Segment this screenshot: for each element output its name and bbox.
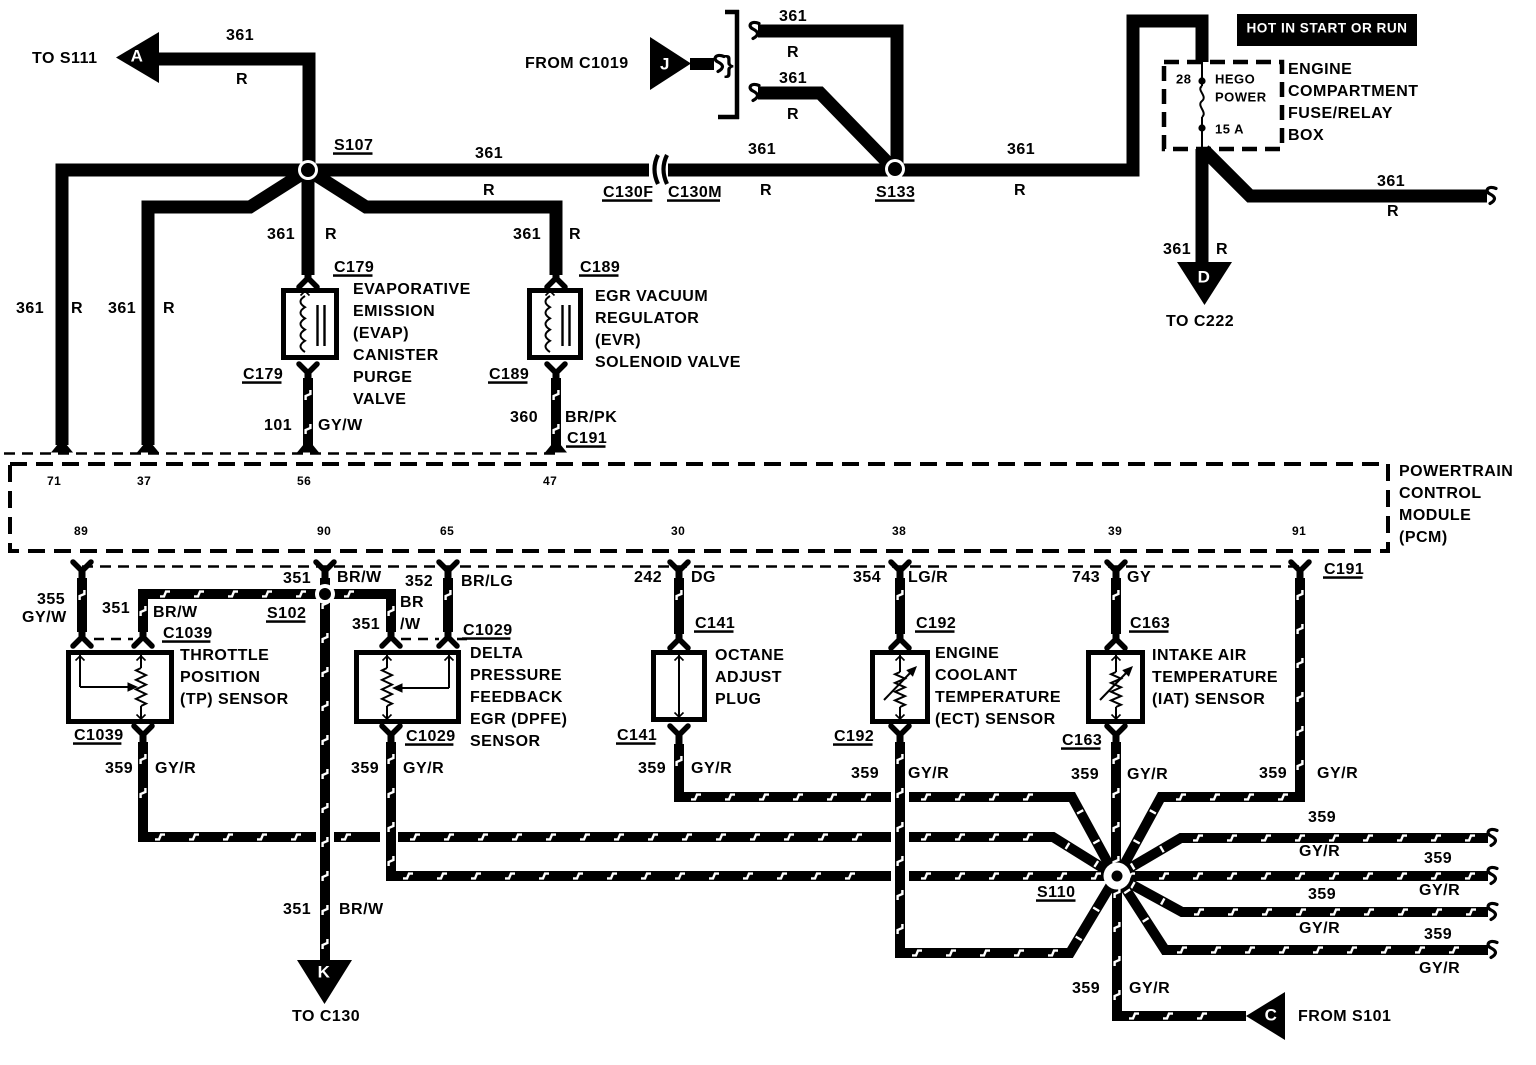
svg-text:359: 359 (1308, 809, 1336, 826)
svg-text:(PCM): (PCM) (1399, 529, 1448, 546)
arrow C from S101 (1246, 992, 1391, 1040)
svg-text:BR/LG: BR/LG (461, 573, 513, 590)
wire 361 R from A to S107 (159, 27, 309, 170)
svg-text:}: } (724, 51, 734, 79)
PCM pin 90 (316, 524, 334, 580)
engine coolant temperature ECT sensor (873, 645, 1062, 728)
octane adjust plug (654, 647, 785, 720)
wire 359 GY/R S110 to right edge 2 (1118, 877, 1497, 937)
svg-text:K: K (318, 963, 331, 982)
svg-text:THROTTLE: THROTTLE (180, 647, 269, 664)
svg-text:C189: C189 (489, 366, 529, 383)
connector C189 top (547, 259, 620, 287)
wire 359 GY/R ECT sensor to S110 (851, 742, 1115, 955)
svg-text:359: 359 (1424, 850, 1452, 867)
PCM pin 37 (137, 444, 159, 488)
svg-text:GY/R: GY/R (1317, 765, 1358, 782)
wire 355 GY/W PCM pin 89 to TP sensor (22, 578, 91, 646)
svg-text:C1029: C1029 (463, 622, 513, 639)
svg-text:89: 89 (74, 524, 88, 538)
svg-text:R: R (760, 182, 772, 199)
PCM pin 71 (47, 444, 73, 488)
svg-text:A: A (131, 47, 144, 66)
wire 360 BR/PK EVR to PCM pin 47 via C191 (510, 378, 617, 453)
wire 351 BR/W S102 to DPFE sensor (332, 592, 424, 646)
svg-text:352: 352 (405, 573, 433, 590)
svg-text:C1039: C1039 (163, 625, 213, 642)
svg-text:C1029: C1029 (406, 728, 456, 745)
svg-text:361: 361 (1007, 141, 1035, 158)
wire 101 GY/W EVAP to PCM pin 71 (264, 378, 363, 453)
connector C189 bottom (488, 364, 565, 384)
PCM pin 30 (670, 524, 688, 580)
svg-text:(TP) SENSOR: (TP) SENSOR (180, 691, 289, 708)
wire 361 R S133 to fuse box (900, 21, 1202, 199)
arrow A to S111 (32, 32, 159, 83)
svg-text:361: 361 (748, 141, 776, 158)
svg-text:R: R (569, 226, 581, 243)
svg-text:47: 47 (543, 474, 557, 488)
wire 354 LG/R PCM pin 38 to ECT (853, 569, 956, 648)
svg-text:GY/R: GY/R (1127, 766, 1168, 783)
splice S102 (266, 584, 335, 623)
svg-text:C189: C189 (580, 259, 620, 276)
PCM pin 38 (891, 524, 909, 580)
svg-text:POSITION: POSITION (180, 669, 260, 686)
fuse HEGO POWER 15 A pin 28 (1176, 62, 1267, 149)
svg-text:CANISTER: CANISTER (353, 347, 439, 364)
wire 242 DG PCM pin 30 to octane plug (634, 569, 735, 648)
svg-text:DG: DG (691, 569, 716, 586)
svg-text:EMISSION: EMISSION (353, 303, 435, 320)
svg-text:C192: C192 (834, 728, 874, 745)
connector dash line C1039 (94, 638, 133, 641)
svg-text:CONTROL: CONTROL (1399, 485, 1482, 502)
svg-text:351: 351 (283, 901, 311, 918)
svg-text:56: 56 (297, 474, 311, 488)
svg-text:J: J (660, 55, 670, 74)
arrow J from C1019 (525, 37, 734, 90)
svg-text:BOX: BOX (1288, 127, 1324, 144)
svg-text:INTAKE AIR: INTAKE AIR (1152, 647, 1247, 664)
svg-text:C141: C141 (695, 615, 735, 632)
svg-text:C: C (1265, 1006, 1278, 1025)
svg-text:D: D (1198, 268, 1211, 287)
PCM pin 47 (543, 474, 557, 488)
svg-text:351: 351 (283, 570, 311, 587)
svg-text:360: 360 (510, 409, 538, 426)
inline connector C130F C130M (602, 155, 722, 202)
svg-text:(EVR): (EVR) (595, 332, 641, 349)
PCM pin 91 (1291, 524, 1309, 580)
svg-text:90: 90 (317, 524, 331, 538)
svg-text:GY/R: GY/R (1419, 960, 1460, 977)
EGR vacuum regulator solenoid valve (530, 288, 741, 371)
power label HOT IN START OR RUN (1237, 14, 1417, 46)
wire 361 R S107 to PCM pin 37 (108, 172, 305, 445)
splice S133 (875, 159, 915, 202)
svg-text:351: 351 (102, 600, 130, 617)
svg-text:C141: C141 (617, 727, 657, 744)
svg-text:359: 359 (1259, 765, 1287, 782)
svg-text:C163: C163 (1130, 615, 1170, 632)
svg-text:R: R (325, 226, 337, 243)
svg-text:TEMPERATURE: TEMPERATURE (935, 689, 1061, 706)
svg-text:MODULE: MODULE (1399, 507, 1471, 524)
svg-text:R: R (1216, 241, 1228, 258)
svg-text:/W: /W (400, 616, 421, 633)
svg-text:HEGO: HEGO (1215, 72, 1255, 87)
svg-text:POWERTRAIN: POWERTRAIN (1399, 463, 1513, 480)
wire 359 GY/R TP sensor to S110 (105, 742, 1114, 875)
svg-text:359: 359 (851, 765, 879, 782)
wire 351 BR/W PCM pin 90 to S102 and K (283, 569, 384, 960)
svg-text:VALVE: VALVE (353, 391, 406, 408)
engine compartment fuse/relay box (1164, 61, 1419, 149)
connector dash line C1029 (401, 638, 470, 641)
throttle position TP sensor (69, 647, 289, 722)
svg-text:(ECT) SENSOR: (ECT) SENSOR (935, 711, 1056, 728)
svg-text:R: R (71, 300, 83, 317)
EVAP canister purge valve (284, 281, 471, 408)
svg-text:SOLENOID VALVE: SOLENOID VALVE (595, 354, 741, 371)
svg-text:361: 361 (475, 145, 503, 162)
connector C192 bottom (833, 726, 909, 746)
svg-text:(IAT) SENSOR: (IAT) SENSOR (1152, 691, 1265, 708)
svg-text:ENGINE: ENGINE (1288, 61, 1352, 78)
svg-text:DELTA: DELTA (470, 645, 523, 662)
svg-text:GY: GY (1127, 569, 1151, 586)
wire 359 GY/R PCM pin 91 C191 to S110 (1119, 561, 1364, 874)
wire 359 GY/R octane plug to S110 (638, 744, 1114, 874)
svg-text:361: 361 (779, 70, 807, 87)
svg-text:EGR VACUUM: EGR VACUUM (595, 288, 708, 305)
svg-text:361: 361 (513, 226, 541, 243)
powertrain control module PCM box (10, 463, 1513, 551)
svg-text:GY/R: GY/R (403, 760, 444, 777)
svg-text:EVAPORATIVE: EVAPORATIVE (353, 281, 471, 298)
svg-text:POWER: POWER (1215, 90, 1267, 105)
svg-text:GY/R: GY/R (1419, 882, 1460, 899)
PCM pin 39 (1107, 524, 1125, 580)
PCM pin 89 (73, 524, 91, 580)
splice S107 (298, 137, 373, 180)
delta pressure feedback EGR DPFE sensor (357, 645, 568, 750)
svg-text:BR/W: BR/W (153, 604, 198, 621)
svg-text:359: 359 (1308, 886, 1336, 903)
svg-text:359: 359 (105, 760, 133, 777)
arrow K to C130 (292, 960, 360, 1025)
svg-text:BR/W: BR/W (339, 901, 384, 918)
wire 361 R fuse to D (1163, 149, 1228, 265)
svg-text:359: 359 (1424, 926, 1452, 943)
svg-text:R: R (483, 182, 495, 199)
svg-text:LG/R: LG/R (908, 569, 948, 586)
svg-text:GY/R: GY/R (1129, 980, 1170, 997)
wire 359 GY/R IAT sensor to S110 (1071, 742, 1168, 876)
svg-text:91: 91 (1292, 524, 1306, 538)
wire 359 GY/R S110 to C (1072, 876, 1246, 1018)
wire 361 R fuse to right edge (1204, 150, 1496, 220)
svg-text:C1039: C1039 (74, 727, 124, 744)
svg-text:HOT IN START OR RUN: HOT IN START OR RUN (1246, 21, 1407, 36)
svg-text:C179: C179 (334, 259, 374, 276)
svg-text:(EVAP): (EVAP) (353, 325, 409, 342)
svg-text:355: 355 (37, 591, 65, 608)
svg-text:28: 28 (1176, 72, 1191, 87)
svg-text:TO C222: TO C222 (1166, 313, 1234, 330)
svg-text:GY/W: GY/W (22, 609, 67, 626)
svg-text:FEEDBACK: FEEDBACK (470, 689, 563, 706)
svg-text:361: 361 (267, 226, 295, 243)
svg-text:REGULATOR: REGULATOR (595, 310, 699, 327)
svg-text:FUSE/RELAY: FUSE/RELAY (1288, 105, 1393, 122)
connector C179 top (299, 259, 374, 287)
connector C179 bottom (242, 364, 317, 384)
svg-text:37: 37 (137, 474, 151, 488)
wire 359 GY/R S110 to right edge 3 (1118, 877, 1497, 977)
svg-text:65: 65 (440, 524, 454, 538)
svg-text:FROM S101: FROM S101 (1298, 1008, 1391, 1025)
svg-text:ENGINE: ENGINE (935, 645, 999, 662)
svg-text:C192: C192 (916, 615, 956, 632)
wire 361 R from J to S133 upper (750, 8, 897, 166)
svg-text:BR/PK: BR/PK (565, 409, 617, 426)
svg-text:242: 242 (634, 569, 662, 586)
svg-text:361: 361 (108, 300, 136, 317)
svg-text:PRESSURE: PRESSURE (470, 667, 562, 684)
svg-text:GY/R: GY/R (1299, 843, 1340, 860)
wire 361 R S107 to EVAP valve (267, 170, 337, 275)
wire 743 GY PCM pin 39 to IAT (1072, 569, 1170, 648)
svg-text:S110: S110 (1037, 884, 1075, 901)
svg-text:GY/R: GY/R (908, 765, 949, 782)
connector C1029 bottom (382, 726, 456, 746)
wire 361 R S107 to EVR valve (311, 172, 581, 275)
svg-text:38: 38 (892, 524, 906, 538)
svg-text:EGR (DPFE): EGR (DPFE) (470, 711, 567, 728)
svg-text:359: 359 (1071, 766, 1099, 783)
svg-text:354: 354 (853, 569, 881, 586)
svg-text:30: 30 (671, 524, 685, 538)
svg-text:R: R (787, 106, 799, 123)
svg-text:BR: BR (400, 594, 424, 611)
svg-text:S102: S102 (267, 605, 306, 622)
svg-text:TO S111: TO S111 (32, 50, 97, 67)
connector C1039 bottom (73, 726, 152, 745)
svg-text:101: 101 (264, 417, 292, 434)
PCM pin 56 (297, 474, 311, 488)
svg-text:FROM C1019: FROM C1019 (525, 55, 629, 72)
connector bracket (718, 10, 739, 119)
wire 361 R S107 to C130F (308, 145, 650, 199)
wire 361 R S107 to PCM pin 71 (16, 170, 308, 445)
svg-text:C191: C191 (567, 430, 607, 447)
wire 359 GY/R S110 to right edge 1 (1118, 809, 1497, 875)
svg-text:R: R (236, 71, 248, 88)
svg-text:359: 359 (351, 760, 379, 777)
svg-text:71: 71 (47, 474, 61, 488)
svg-text:S133: S133 (876, 184, 915, 201)
svg-text:351: 351 (352, 616, 380, 633)
svg-text:361: 361 (1377, 173, 1405, 190)
svg-text:359: 359 (1072, 980, 1100, 997)
svg-text:GY/W: GY/W (318, 417, 363, 434)
wire 359 GY/R DPFE sensor to S110 (351, 742, 1497, 899)
svg-text:GY/R: GY/R (691, 760, 732, 777)
wire 352 BR/LG PCM pin 65 to DPFE (405, 573, 513, 646)
svg-text:R: R (1387, 203, 1399, 220)
svg-text:PURGE: PURGE (353, 369, 412, 386)
svg-text:PLUG: PLUG (715, 691, 761, 708)
wire 351 BR/W S102 to TP sensor (102, 592, 318, 646)
svg-text:S107: S107 (334, 137, 373, 154)
svg-text:TEMPERATURE: TEMPERATURE (1152, 669, 1278, 686)
svg-text:15 A: 15 A (1215, 122, 1244, 137)
svg-text:R: R (787, 44, 799, 61)
svg-text:361: 361 (1163, 241, 1191, 258)
svg-text:R: R (163, 300, 175, 317)
svg-text:361: 361 (226, 27, 254, 44)
svg-text:C179: C179 (243, 366, 283, 383)
svg-text:BR/W: BR/W (337, 569, 382, 586)
svg-text:OCTANE: OCTANE (715, 647, 784, 664)
connector C141 bottom (616, 726, 688, 745)
svg-text:COOLANT: COOLANT (935, 667, 1018, 684)
svg-text:GY/R: GY/R (155, 760, 196, 777)
svg-text:C130F: C130F (603, 184, 654, 201)
svg-text:361: 361 (779, 8, 807, 25)
svg-text:361: 361 (16, 300, 44, 317)
svg-text:359: 359 (638, 760, 666, 777)
svg-text:COMPARTMENT: COMPARTMENT (1288, 83, 1419, 100)
connector C163 bottom (1061, 726, 1125, 750)
svg-text:SENSOR: SENSOR (470, 733, 541, 750)
wire 361 R from J to S133 lower (750, 70, 893, 168)
svg-text:C163: C163 (1062, 732, 1102, 749)
svg-text:C191: C191 (1324, 561, 1364, 578)
connector dash line below PCM (82, 565, 1300, 568)
svg-text:ADJUST: ADJUST (715, 669, 782, 686)
svg-text:C130M: C130M (668, 184, 722, 201)
arrow D to C222 (1166, 262, 1234, 330)
wire 361 R C130M to S133 (668, 141, 888, 199)
svg-text:743: 743 (1072, 569, 1100, 586)
svg-text:39: 39 (1108, 524, 1122, 538)
svg-text:R: R (1014, 182, 1026, 199)
PCM pin 65 (439, 524, 457, 580)
intake air temperature IAT sensor (1089, 647, 1279, 722)
svg-text:GY/R: GY/R (1299, 920, 1340, 937)
svg-text:TO C130: TO C130 (292, 1008, 360, 1025)
splice S110 (1036, 863, 1131, 902)
connector dash line above PCM (4, 452, 560, 455)
